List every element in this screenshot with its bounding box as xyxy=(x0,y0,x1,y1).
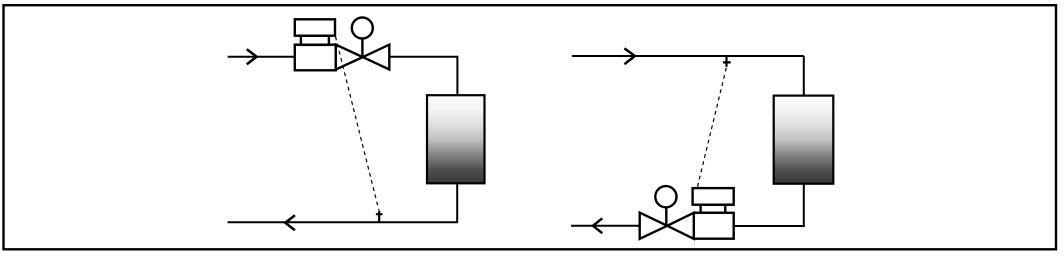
right valve V2 right wedge xyxy=(667,213,694,239)
left sensor tee xyxy=(376,211,383,223)
right actuator neck xyxy=(701,205,726,213)
right pipe corner to exchanger xyxy=(803,56,805,96)
left actuator neck xyxy=(301,36,329,45)
left heat exchanger HX1 xyxy=(427,95,485,183)
left supply flow arrow xyxy=(247,49,257,64)
left actuator top cap xyxy=(295,19,335,35)
right sensor tee xyxy=(723,56,731,67)
left valve stem xyxy=(361,39,363,57)
right valve actuator head xyxy=(655,186,676,207)
right pipe exchanger to valve xyxy=(734,184,804,226)
left pipe exchanger to return xyxy=(228,183,458,222)
right valve stem xyxy=(665,208,667,226)
right supply pipe xyxy=(572,55,804,57)
left return flow arrow xyxy=(285,215,295,230)
right supply flow arrow xyxy=(624,48,635,64)
left supply pipe xyxy=(228,56,295,58)
left valve V1 right wedge xyxy=(363,45,390,70)
left actuator body xyxy=(295,45,336,71)
left valve actuator head xyxy=(352,18,373,39)
right actuator body xyxy=(694,213,734,239)
right capillary sensing line xyxy=(697,68,726,188)
right return flow arrow xyxy=(593,218,602,233)
left capillary sensing line xyxy=(336,37,379,211)
left pipe valve to corner xyxy=(389,57,457,95)
right heat exchanger HX2 xyxy=(774,96,834,184)
right return pipe xyxy=(571,225,640,227)
left valve V1 left wedge xyxy=(336,45,363,70)
right actuator top cap xyxy=(693,188,734,205)
right valve V2 left wedge xyxy=(640,213,668,239)
